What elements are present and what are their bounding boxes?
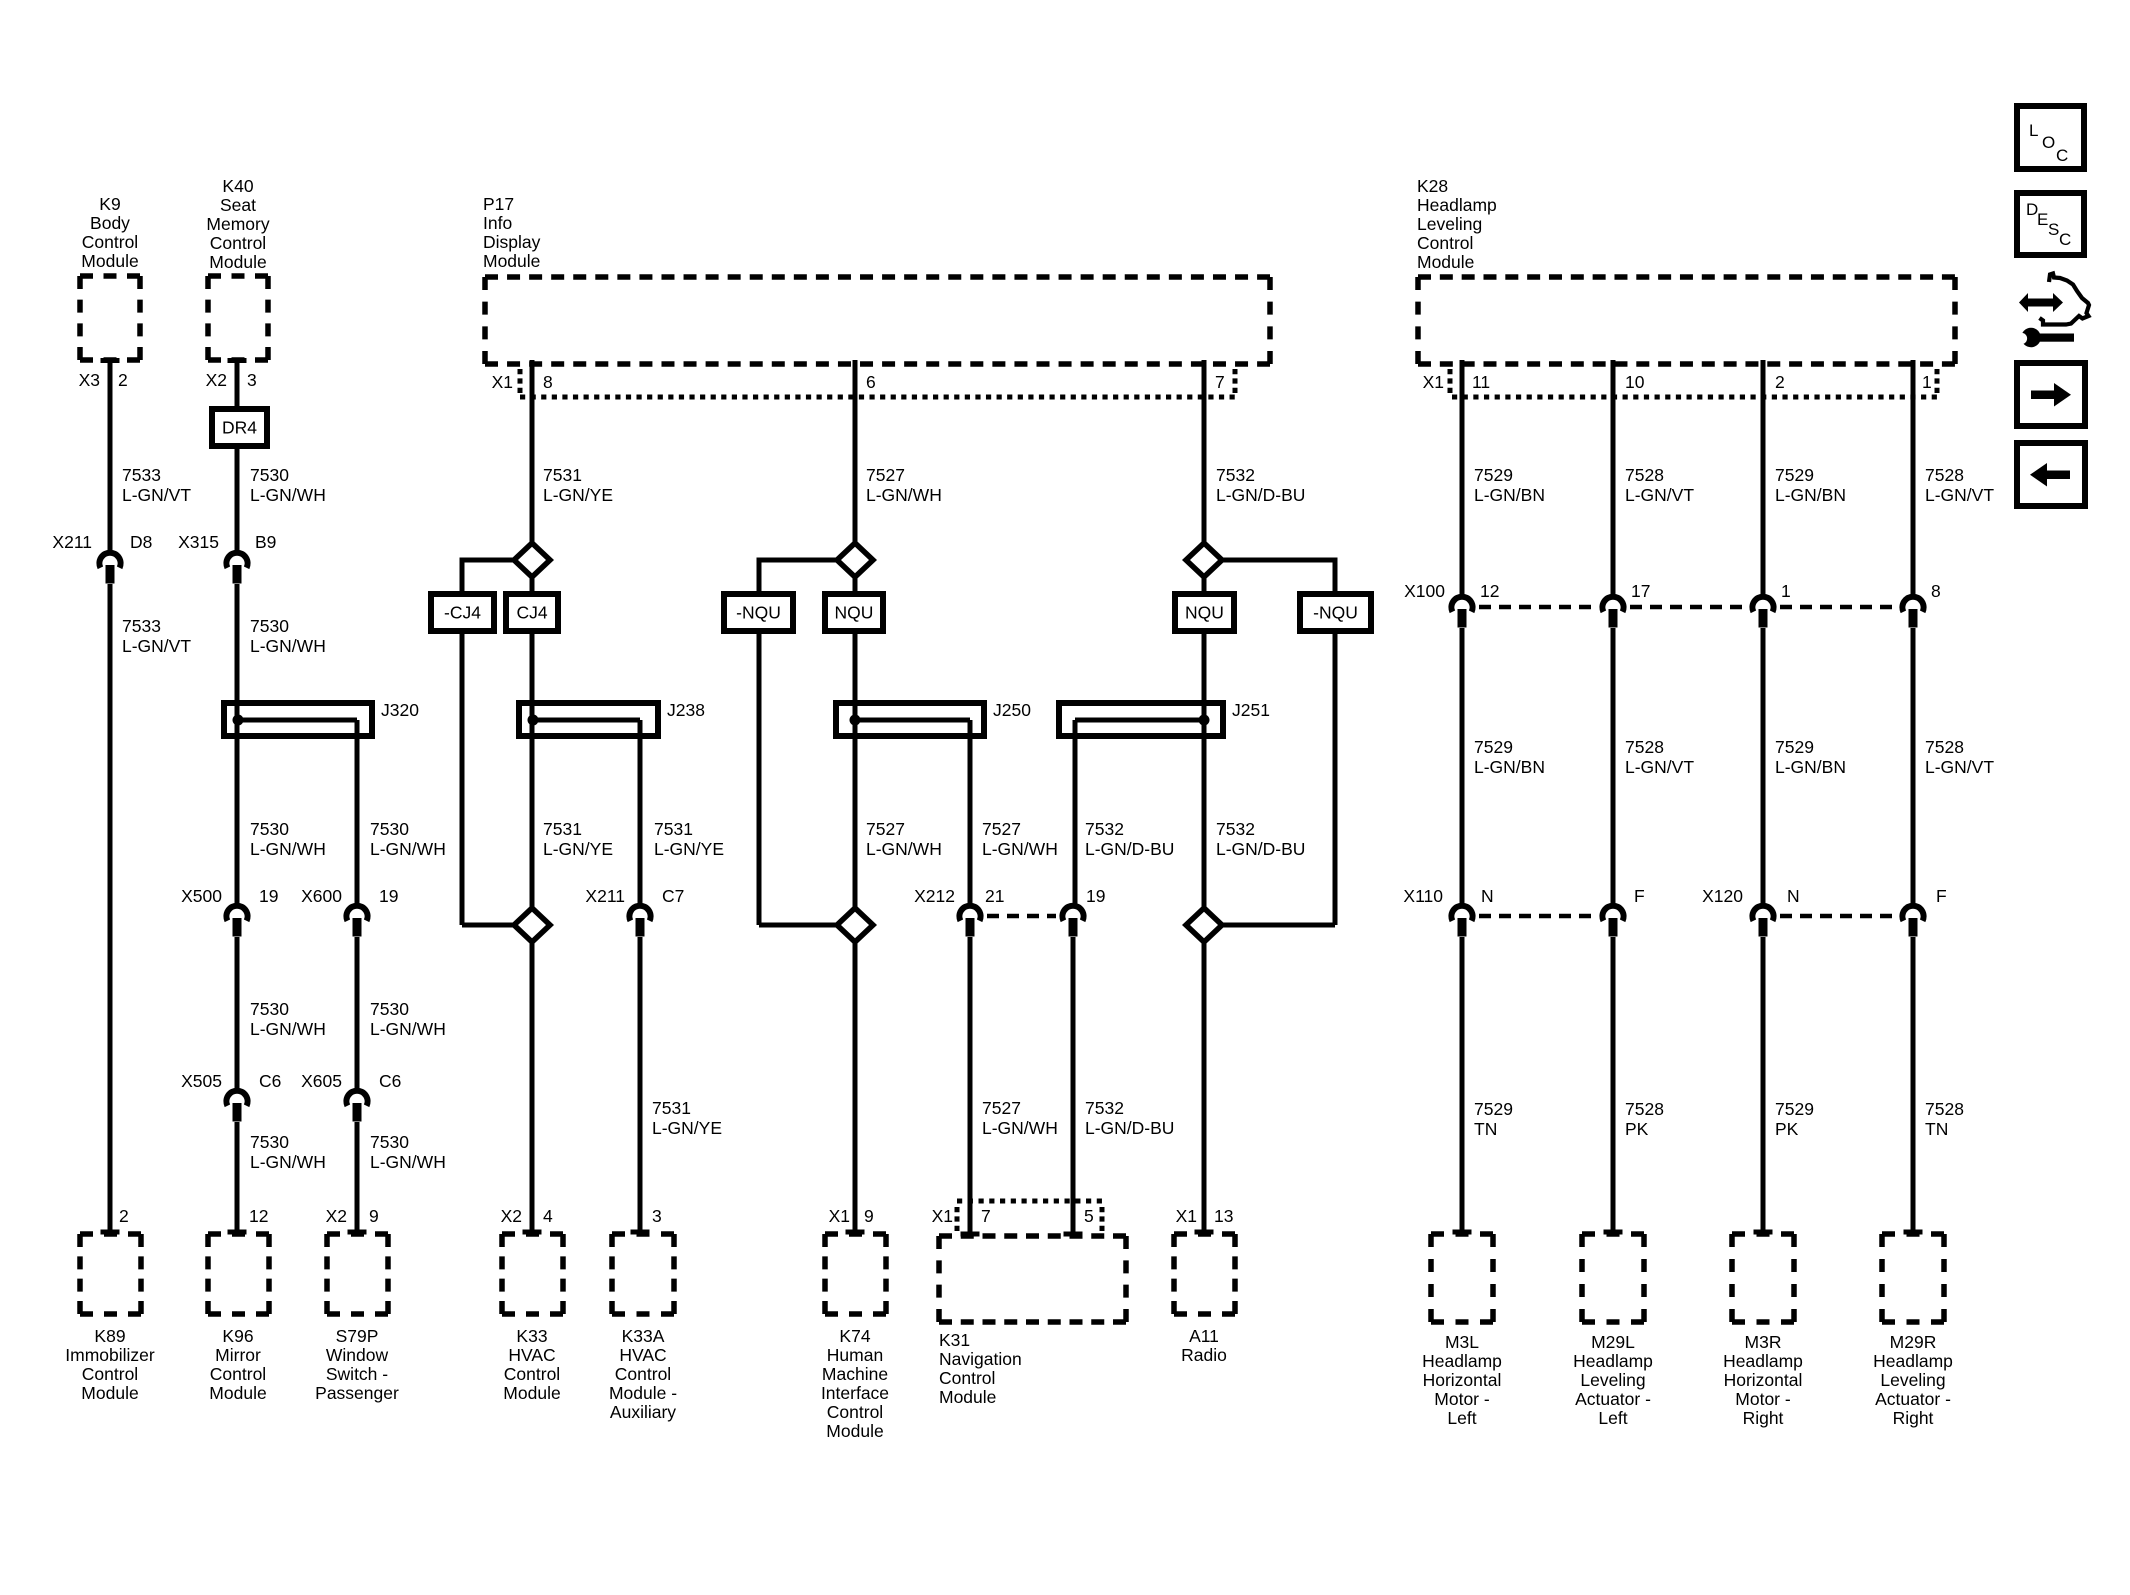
svg-text:Interface: Interface: [821, 1383, 889, 1403]
connector X211 pin D8: [99, 553, 120, 584]
svg-text:7529: 7529: [1775, 1099, 1814, 1119]
wire 7529 K28 pin to X100 (col 1): [1460, 360, 1465, 598]
svg-text:Leveling: Leveling: [1417, 214, 1482, 234]
connector X315 pin B9: [226, 553, 247, 584]
wire label 7532 (below J251 right): [1216, 819, 1305, 859]
option box -NQU (right): [1300, 594, 1371, 631]
svg-text:B9: B9: [255, 532, 276, 552]
wire 7531 from P17 pin 8: [530, 360, 535, 545]
svg-text:L-GN/VT: L-GN/VT: [1625, 485, 1694, 505]
svg-text:7530: 7530: [370, 1132, 409, 1152]
svg-text:X2: X2: [206, 370, 227, 390]
svg-text:DR4: DR4: [222, 418, 257, 438]
wire 7532 from P17 pin 7: [1202, 360, 1207, 545]
wire label 7529 L-GN/BN (mid col 1): [1474, 737, 1545, 777]
motor M3R title: [1723, 1332, 1803, 1428]
connector X605 pin C6: [346, 1091, 367, 1122]
svg-text:7530: 7530: [250, 819, 289, 839]
wire label 7533 L-GN/VT (lower): [122, 616, 191, 656]
wire label 7530 (to K96): [250, 1132, 326, 1172]
wire 7531 CJ4 through J238: [530, 631, 535, 908]
svg-text:L-GN/WH: L-GN/WH: [370, 1019, 446, 1039]
svg-text:L-GN/BN: L-GN/BN: [1474, 485, 1545, 505]
svg-text:7530: 7530: [370, 999, 409, 1019]
svg-text:L-GN/D-BU: L-GN/D-BU: [1085, 839, 1174, 859]
svg-text:Module: Module: [939, 1387, 996, 1407]
pin tick K33A pin3: [631, 1230, 650, 1235]
svg-text:7529: 7529: [1775, 737, 1814, 757]
svg-text:Headlamp: Headlamp: [1723, 1351, 1803, 1371]
svg-text:F: F: [1634, 886, 1645, 906]
connector X500 pin 19: [226, 906, 247, 937]
wire 7528 TN to motor (col 4): [1911, 937, 1916, 1232]
svg-text:Control: Control: [210, 233, 266, 253]
svg-text:Module: Module: [81, 1383, 138, 1403]
connector X110 pin N: [1451, 906, 1472, 937]
svg-text:17: 17: [1631, 581, 1650, 601]
wire 7527 from P17 pin 6: [853, 360, 858, 545]
svg-text:7527: 7527: [982, 819, 1021, 839]
wire diamond to NQU (right): [1202, 577, 1207, 594]
svg-text:12: 12: [1480, 581, 1499, 601]
module K28 Headlamp Leveling Control box: [1418, 277, 1955, 364]
wire label 7527 (below J250 right): [982, 819, 1058, 859]
svg-text:X1: X1: [932, 1206, 953, 1226]
svg-text:HVAC: HVAC: [619, 1345, 666, 1365]
module K74 title: [821, 1326, 889, 1441]
module K28 title: [1417, 176, 1497, 272]
wire diamond to NQU: [853, 577, 858, 594]
svg-text:PK: PK: [1625, 1119, 1649, 1139]
connector X100 pin 1: [1752, 597, 1773, 628]
svg-text:Control: Control: [82, 232, 138, 252]
svg-text:19: 19: [379, 886, 398, 906]
wire label 7530 L-GN/WH (upper): [250, 465, 326, 505]
svg-text:J250: J250: [993, 700, 1031, 720]
svg-text:9: 9: [369, 1206, 379, 1226]
wire -CJ4 down: [460, 631, 465, 925]
module K89 Immobilizer Control Module box: [80, 1234, 141, 1314]
motor M29R box: [1882, 1234, 1944, 1322]
module K9 Body Control Module box: [80, 276, 140, 360]
svg-text:7530: 7530: [250, 1132, 289, 1152]
wire 7529 TN to motor (col 1): [1460, 937, 1465, 1232]
wire 7533 L-GN/VT lower: [108, 584, 113, 1232]
svg-text:X3: X3: [79, 370, 100, 390]
svg-text:NQU: NQU: [1185, 603, 1224, 623]
wire diamond to CJ4: [530, 577, 535, 594]
svg-text:Left: Left: [1598, 1408, 1627, 1428]
svg-text:Control: Control: [210, 1364, 266, 1384]
svg-text:1: 1: [1781, 581, 1791, 601]
option box -NQU (left): [724, 594, 793, 631]
module P17 title: [483, 194, 541, 271]
svg-text:11: 11: [1472, 372, 1490, 392]
module K96 title: [209, 1326, 266, 1403]
wire 7532 to K31: [1071, 937, 1076, 1234]
motor M3L title: [1422, 1332, 1502, 1428]
pin tick K89 pin2: [101, 1230, 120, 1235]
svg-text:19: 19: [259, 886, 278, 906]
svg-text:7532: 7532: [1216, 819, 1255, 839]
svg-text:2: 2: [1775, 372, 1785, 392]
pin tick motor col 3: [1754, 1230, 1773, 1235]
svg-text:7530: 7530: [370, 819, 409, 839]
svg-text:M3L: M3L: [1445, 1332, 1479, 1352]
svg-text:L-GN/BN: L-GN/BN: [1775, 757, 1846, 777]
svg-text:7528: 7528: [1925, 1099, 1964, 1119]
wire 7532 left branch from J251: [1073, 720, 1078, 907]
svg-text:7527: 7527: [982, 1098, 1021, 1118]
wire label 7529 L-GN/BN (upper col 3): [1775, 465, 1846, 505]
wire -NQU down (left): [757, 631, 762, 925]
connector X100 pin 17: [1602, 597, 1623, 628]
svg-text:Module: Module: [81, 251, 138, 271]
svg-text:X505: X505: [181, 1071, 222, 1091]
svg-text:L-GN/WH: L-GN/WH: [982, 1118, 1058, 1138]
svg-text:PK: PK: [1775, 1119, 1799, 1139]
svg-text:Control: Control: [939, 1368, 995, 1388]
svg-text:HVAC: HVAC: [508, 1345, 555, 1365]
connector X100 pin 12: [1451, 597, 1472, 628]
pin tick A11 pin13: [1195, 1230, 1214, 1235]
pin tick K31 pin7: [961, 1232, 980, 1237]
svg-text:Left: Left: [1447, 1408, 1476, 1428]
svg-text:2: 2: [119, 1206, 129, 1226]
svg-text:K40: K40: [222, 176, 253, 196]
wire label 7528 L-GN/VT (mid col 2): [1625, 737, 1694, 777]
svg-text:L-GN/VT: L-GN/VT: [122, 485, 191, 505]
svg-text:L-GN/WH: L-GN/WH: [250, 839, 326, 859]
svg-text:L: L: [2029, 121, 2038, 140]
switch S79P Window Switch box: [327, 1234, 388, 1314]
wire 7532 to A11: [1202, 942, 1207, 1232]
motor M29R title: [1873, 1332, 1953, 1428]
svg-text:Motor -: Motor -: [1735, 1389, 1791, 1409]
module K9 title: [81, 194, 138, 271]
svg-text:L-GN/D-BU: L-GN/D-BU: [1085, 1118, 1174, 1138]
svg-text:M29L: M29L: [1591, 1332, 1635, 1352]
svg-text:L-GN/BN: L-GN/BN: [1775, 485, 1846, 505]
module K33 HVAC Control Module box: [502, 1234, 563, 1314]
svg-text:X2: X2: [501, 1206, 522, 1226]
splice diamond 7527 upper: [837, 543, 873, 577]
svg-text:C7: C7: [662, 886, 684, 906]
wire label 7531 (below J238 right): [654, 819, 724, 859]
connector X120 pin F: [1902, 906, 1923, 937]
connector strip X1 of P17: [520, 369, 1235, 397]
connector X212 pin 21: [959, 906, 980, 937]
svg-text:7529: 7529: [1474, 465, 1513, 485]
svg-text:J238: J238: [667, 700, 705, 720]
svg-text:7533: 7533: [122, 465, 161, 485]
wire 7528 K28 pin to X100 (col 4): [1911, 360, 1916, 598]
wire label 7532 (below J251 left): [1085, 819, 1174, 859]
module A11 title: [1181, 1326, 1227, 1365]
svg-text:C: C: [2059, 230, 2071, 249]
module K40 title: [206, 176, 269, 272]
svg-text:7529: 7529: [1775, 465, 1814, 485]
svg-text:Mirror: Mirror: [215, 1345, 261, 1365]
svg-text:X600: X600: [301, 886, 342, 906]
wire 7530 X605 to S79P: [355, 1122, 360, 1232]
svg-text:Headlamp: Headlamp: [1422, 1351, 1502, 1371]
svg-text:Motor -: Motor -: [1434, 1389, 1490, 1409]
splice diamond 7532 upper: [1186, 543, 1222, 577]
wire label 7531 (below J238 left): [543, 819, 613, 859]
wire label 7528 L-GN/VT (upper col 2): [1625, 465, 1694, 505]
svg-text:7527: 7527: [866, 465, 905, 485]
wire 7528 K28 pin to X100 (col 2): [1611, 360, 1616, 598]
wire branch to -NQU (left): [759, 560, 837, 594]
pin tick motor col 2: [1604, 1230, 1623, 1235]
dashed link X120: [1780, 914, 1896, 919]
svg-text:L-GN/WH: L-GN/WH: [250, 485, 326, 505]
svg-text:N: N: [1481, 886, 1494, 906]
svg-text:7532: 7532: [1085, 819, 1124, 839]
wire label 7529 PK (col 3): [1775, 1099, 1814, 1139]
pin tick K31 pin5: [1064, 1232, 1083, 1237]
pin tick motor col 4: [1904, 1230, 1923, 1235]
svg-text:Module: Module: [503, 1383, 560, 1403]
module K33A HVAC Auxiliary box: [612, 1234, 674, 1314]
wire -NQU down (right): [1333, 631, 1338, 925]
svg-text:8: 8: [543, 372, 553, 392]
wire 7530 right branch from J320: [355, 720, 360, 907]
pin tick K96 pin12: [228, 1230, 247, 1235]
svg-text:D8: D8: [130, 532, 152, 552]
svg-text:Navigation: Navigation: [939, 1349, 1022, 1369]
svg-text:5: 5: [1084, 1206, 1094, 1226]
splice pack J238: [519, 700, 705, 736]
svg-text:Immobilizer: Immobilizer: [65, 1345, 155, 1365]
dashed link X212: [987, 914, 1056, 919]
svg-text:O: O: [2042, 133, 2055, 152]
svg-text:Headlamp: Headlamp: [1573, 1351, 1653, 1371]
motor M3L box: [1431, 1234, 1493, 1322]
svg-text:Actuator -: Actuator -: [1575, 1389, 1651, 1409]
wire 7530 X500 to X505: [235, 937, 240, 1092]
module K33A title: [609, 1326, 677, 1422]
svg-text:Module: Module: [483, 251, 540, 271]
dashed link X100 (1-8): [1780, 605, 1898, 610]
wire label 7531 (to K33A): [652, 1098, 722, 1138]
svg-text:L-GN/WH: L-GN/WH: [250, 1019, 326, 1039]
svg-text:X1: X1: [1423, 372, 1444, 392]
svg-text:X500: X500: [181, 886, 222, 906]
svg-text:Info: Info: [483, 213, 512, 233]
dashed link X100 (17-1): [1630, 605, 1748, 610]
splice diamond 7527 lower: [837, 908, 873, 942]
svg-text:13: 13: [1214, 1206, 1233, 1226]
motor M3R box: [1732, 1234, 1794, 1322]
svg-text:Right: Right: [1743, 1408, 1784, 1428]
svg-text:N: N: [1787, 886, 1800, 906]
svg-text:P17: P17: [483, 194, 514, 214]
wire 7528 X100 to X110/X120 (col 4): [1911, 628, 1916, 907]
svg-text:7531: 7531: [652, 1098, 691, 1118]
svg-text:8: 8: [1931, 581, 1941, 601]
switch S79P title: [315, 1326, 399, 1403]
wire 7531 to K33A: [638, 937, 643, 1232]
wire branch to -CJ4: [462, 560, 514, 594]
svg-text:TN: TN: [1925, 1119, 1948, 1139]
wire 7527 to K31: [968, 937, 973, 1234]
svg-text:L-GN/VT: L-GN/VT: [1625, 757, 1694, 777]
wire 7529 K28 pin to X100 (col 3): [1761, 360, 1766, 598]
svg-text:7533: 7533: [122, 616, 161, 636]
svg-text:K96: K96: [222, 1326, 253, 1346]
svg-text:7528: 7528: [1925, 737, 1964, 757]
wire label 7530 L-GN/WH (left of X600): [370, 819, 446, 859]
svg-text:-NQU: -NQU: [736, 603, 781, 623]
svg-text:Body: Body: [90, 213, 130, 233]
svg-text:Machine: Machine: [822, 1364, 888, 1384]
wire K40 to DR4: [235, 360, 240, 409]
wire 7527 right branch from J250: [968, 720, 973, 907]
wire 7529 PK to motor (col 3): [1761, 937, 1766, 1232]
svg-text:7529: 7529: [1474, 737, 1513, 757]
svg-text:X100: X100: [1404, 581, 1445, 601]
icon arrow-left box: [2017, 443, 2085, 506]
svg-text:10: 10: [1625, 372, 1645, 392]
wire label 7528 L-GN/VT (upper col 4): [1925, 465, 1994, 505]
svg-text:7529: 7529: [1474, 1099, 1513, 1119]
svg-text:1: 1: [1922, 372, 1932, 392]
svg-text:E: E: [2037, 210, 2048, 229]
motor M29L title: [1573, 1332, 1653, 1428]
svg-text:L-GN/WH: L-GN/WH: [370, 1152, 446, 1172]
svg-text:CJ4: CJ4: [516, 603, 547, 623]
svg-text:2: 2: [118, 370, 128, 390]
svg-text:X211: X211: [585, 886, 625, 906]
svg-text:19: 19: [1086, 886, 1105, 906]
svg-text:7528: 7528: [1625, 1099, 1664, 1119]
svg-text:F: F: [1936, 886, 1947, 906]
option box NQU (right): [1175, 594, 1234, 631]
svg-text:Control: Control: [1417, 233, 1473, 253]
icon connector-view (car with double arrow and wrench): [2016, 274, 2089, 348]
wire label 7532 L-GN/D-BU (upper): [1216, 465, 1305, 505]
wire 7532 NQU through J251: [1202, 631, 1207, 908]
svg-text:Passenger: Passenger: [315, 1383, 399, 1403]
svg-text:L-GN/WH: L-GN/WH: [982, 839, 1058, 859]
svg-text:K33: K33: [516, 1326, 547, 1346]
wire 7528 PK to motor (col 2): [1611, 937, 1616, 1232]
splice pack J320: [224, 700, 419, 736]
wire 7530 X505 to K96: [235, 1122, 240, 1232]
svg-text:7531: 7531: [543, 465, 582, 485]
svg-text:X315: X315: [178, 532, 219, 552]
svg-text:K89: K89: [94, 1326, 125, 1346]
svg-text:Headlamp: Headlamp: [1873, 1351, 1953, 1371]
svg-text:Switch -: Switch -: [326, 1364, 388, 1384]
module K31 Navigation Control Module box: [939, 1236, 1126, 1322]
svg-text:S: S: [2048, 220, 2059, 239]
svg-text:7532: 7532: [1085, 1098, 1124, 1118]
wire 7528 X100 to X110/X120 (col 2): [1611, 628, 1616, 907]
svg-text:Control: Control: [82, 1364, 138, 1384]
svg-text:7528: 7528: [1625, 737, 1664, 757]
svg-text:J251: J251: [1232, 700, 1270, 720]
svg-text:Display: Display: [483, 232, 541, 252]
svg-text:Radio: Radio: [1181, 1345, 1227, 1365]
connector X120 pin N: [1752, 906, 1773, 937]
svg-text:Window: Window: [326, 1345, 389, 1365]
pin tick S79P pin9: [348, 1230, 367, 1235]
svg-text:7530: 7530: [250, 999, 289, 1019]
svg-text:X212: X212: [914, 886, 955, 906]
icon DESC box: [2017, 193, 2084, 255]
svg-text:X211: X211: [52, 532, 92, 552]
svg-text:X110: X110: [1403, 886, 1443, 906]
svg-text:Horizontal: Horizontal: [1724, 1370, 1803, 1390]
module A11 Radio box: [1174, 1234, 1235, 1314]
wire 7530 L-GN/WH upper: [235, 446, 240, 554]
svg-text:12: 12: [249, 1206, 268, 1226]
svg-text:K33A: K33A: [622, 1326, 665, 1346]
wire 7527 NQU through J250: [853, 631, 858, 908]
module K33 title: [503, 1326, 560, 1403]
connector X505 pin C6: [226, 1091, 247, 1122]
svg-text:Leveling: Leveling: [1580, 1370, 1645, 1390]
wire label 7531 L-GN/YE (upper): [543, 465, 613, 505]
motor M29L box: [1582, 1234, 1644, 1322]
svg-text:Module -: Module -: [609, 1383, 677, 1403]
svg-text:Seat: Seat: [220, 195, 256, 215]
wire label 7529 TN (col 1): [1474, 1099, 1513, 1139]
svg-text:J320: J320: [381, 700, 419, 720]
svg-text:L-GN/D-BU: L-GN/D-BU: [1216, 839, 1305, 859]
connector X100 pin 8: [1902, 597, 1923, 628]
svg-text:L-GN/WH: L-GN/WH: [250, 636, 326, 656]
wire label 7533 L-GN/VT (upper): [122, 465, 191, 505]
svg-text:3: 3: [652, 1206, 662, 1226]
dashed link X100 (12-17): [1479, 605, 1597, 610]
svg-text:S79P: S79P: [336, 1326, 379, 1346]
pin tick K40 X2-3: [228, 358, 247, 363]
svg-text:A11: A11: [1189, 1326, 1219, 1346]
svg-text:Module: Module: [209, 1383, 266, 1403]
wire label 7527 L-GN/WH (upper): [866, 465, 942, 505]
svg-text:K28: K28: [1417, 176, 1448, 196]
wire label 7532 (to K31): [1085, 1098, 1174, 1138]
svg-text:L-GN/YE: L-GN/YE: [654, 839, 724, 859]
wire 7531 right branch from J238: [638, 720, 643, 907]
connector X211 pin C7: [629, 906, 650, 937]
svg-text:6: 6: [866, 372, 876, 392]
svg-text:K74: K74: [839, 1326, 870, 1346]
svg-text:L-GN/YE: L-GN/YE: [543, 839, 613, 859]
svg-text:L-GN/WH: L-GN/WH: [866, 485, 942, 505]
wire 7531 to K33: [530, 942, 535, 1232]
option box -CJ4: [431, 594, 494, 631]
svg-text:Actuator -: Actuator -: [1875, 1389, 1951, 1409]
svg-text:7531: 7531: [654, 819, 693, 839]
wire -NQU rejoin (left): [759, 923, 837, 928]
svg-text:7528: 7528: [1925, 465, 1964, 485]
svg-text:L-GN/WH: L-GN/WH: [370, 839, 446, 859]
svg-text:L-GN/VT: L-GN/VT: [1925, 757, 1994, 777]
svg-text:L-GN/D-BU: L-GN/D-BU: [1216, 485, 1305, 505]
svg-text:Module: Module: [209, 252, 266, 272]
svg-text:3: 3: [247, 370, 257, 390]
pin tick motor col 1: [1453, 1230, 1472, 1235]
svg-text:7528: 7528: [1625, 465, 1664, 485]
wire label 7527 (below J250 left): [866, 819, 942, 859]
connector strip X1 of K28: [1450, 369, 1937, 397]
wire label 7529 L-GN/BN (upper col 1): [1474, 465, 1545, 505]
